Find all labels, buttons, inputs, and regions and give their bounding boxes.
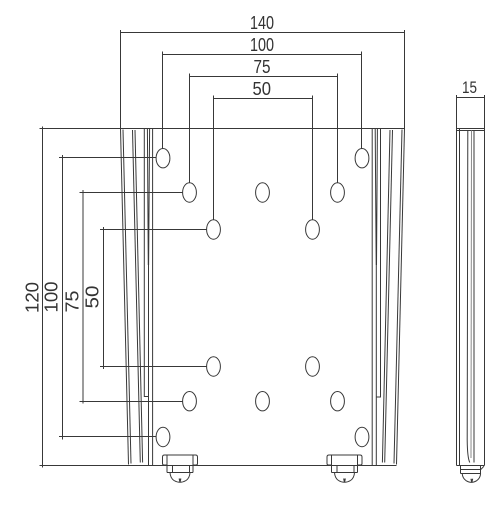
svg-text:140: 140: [250, 13, 274, 33]
svg-text:75: 75: [254, 57, 271, 77]
svg-text:100: 100: [250, 35, 274, 55]
svg-text:50: 50: [83, 286, 103, 309]
svg-text:120: 120: [23, 282, 43, 313]
svg-text:75: 75: [63, 291, 83, 313]
svg-text:15: 15: [462, 79, 477, 97]
svg-text:50: 50: [253, 79, 272, 99]
svg-text:100: 100: [42, 282, 62, 313]
